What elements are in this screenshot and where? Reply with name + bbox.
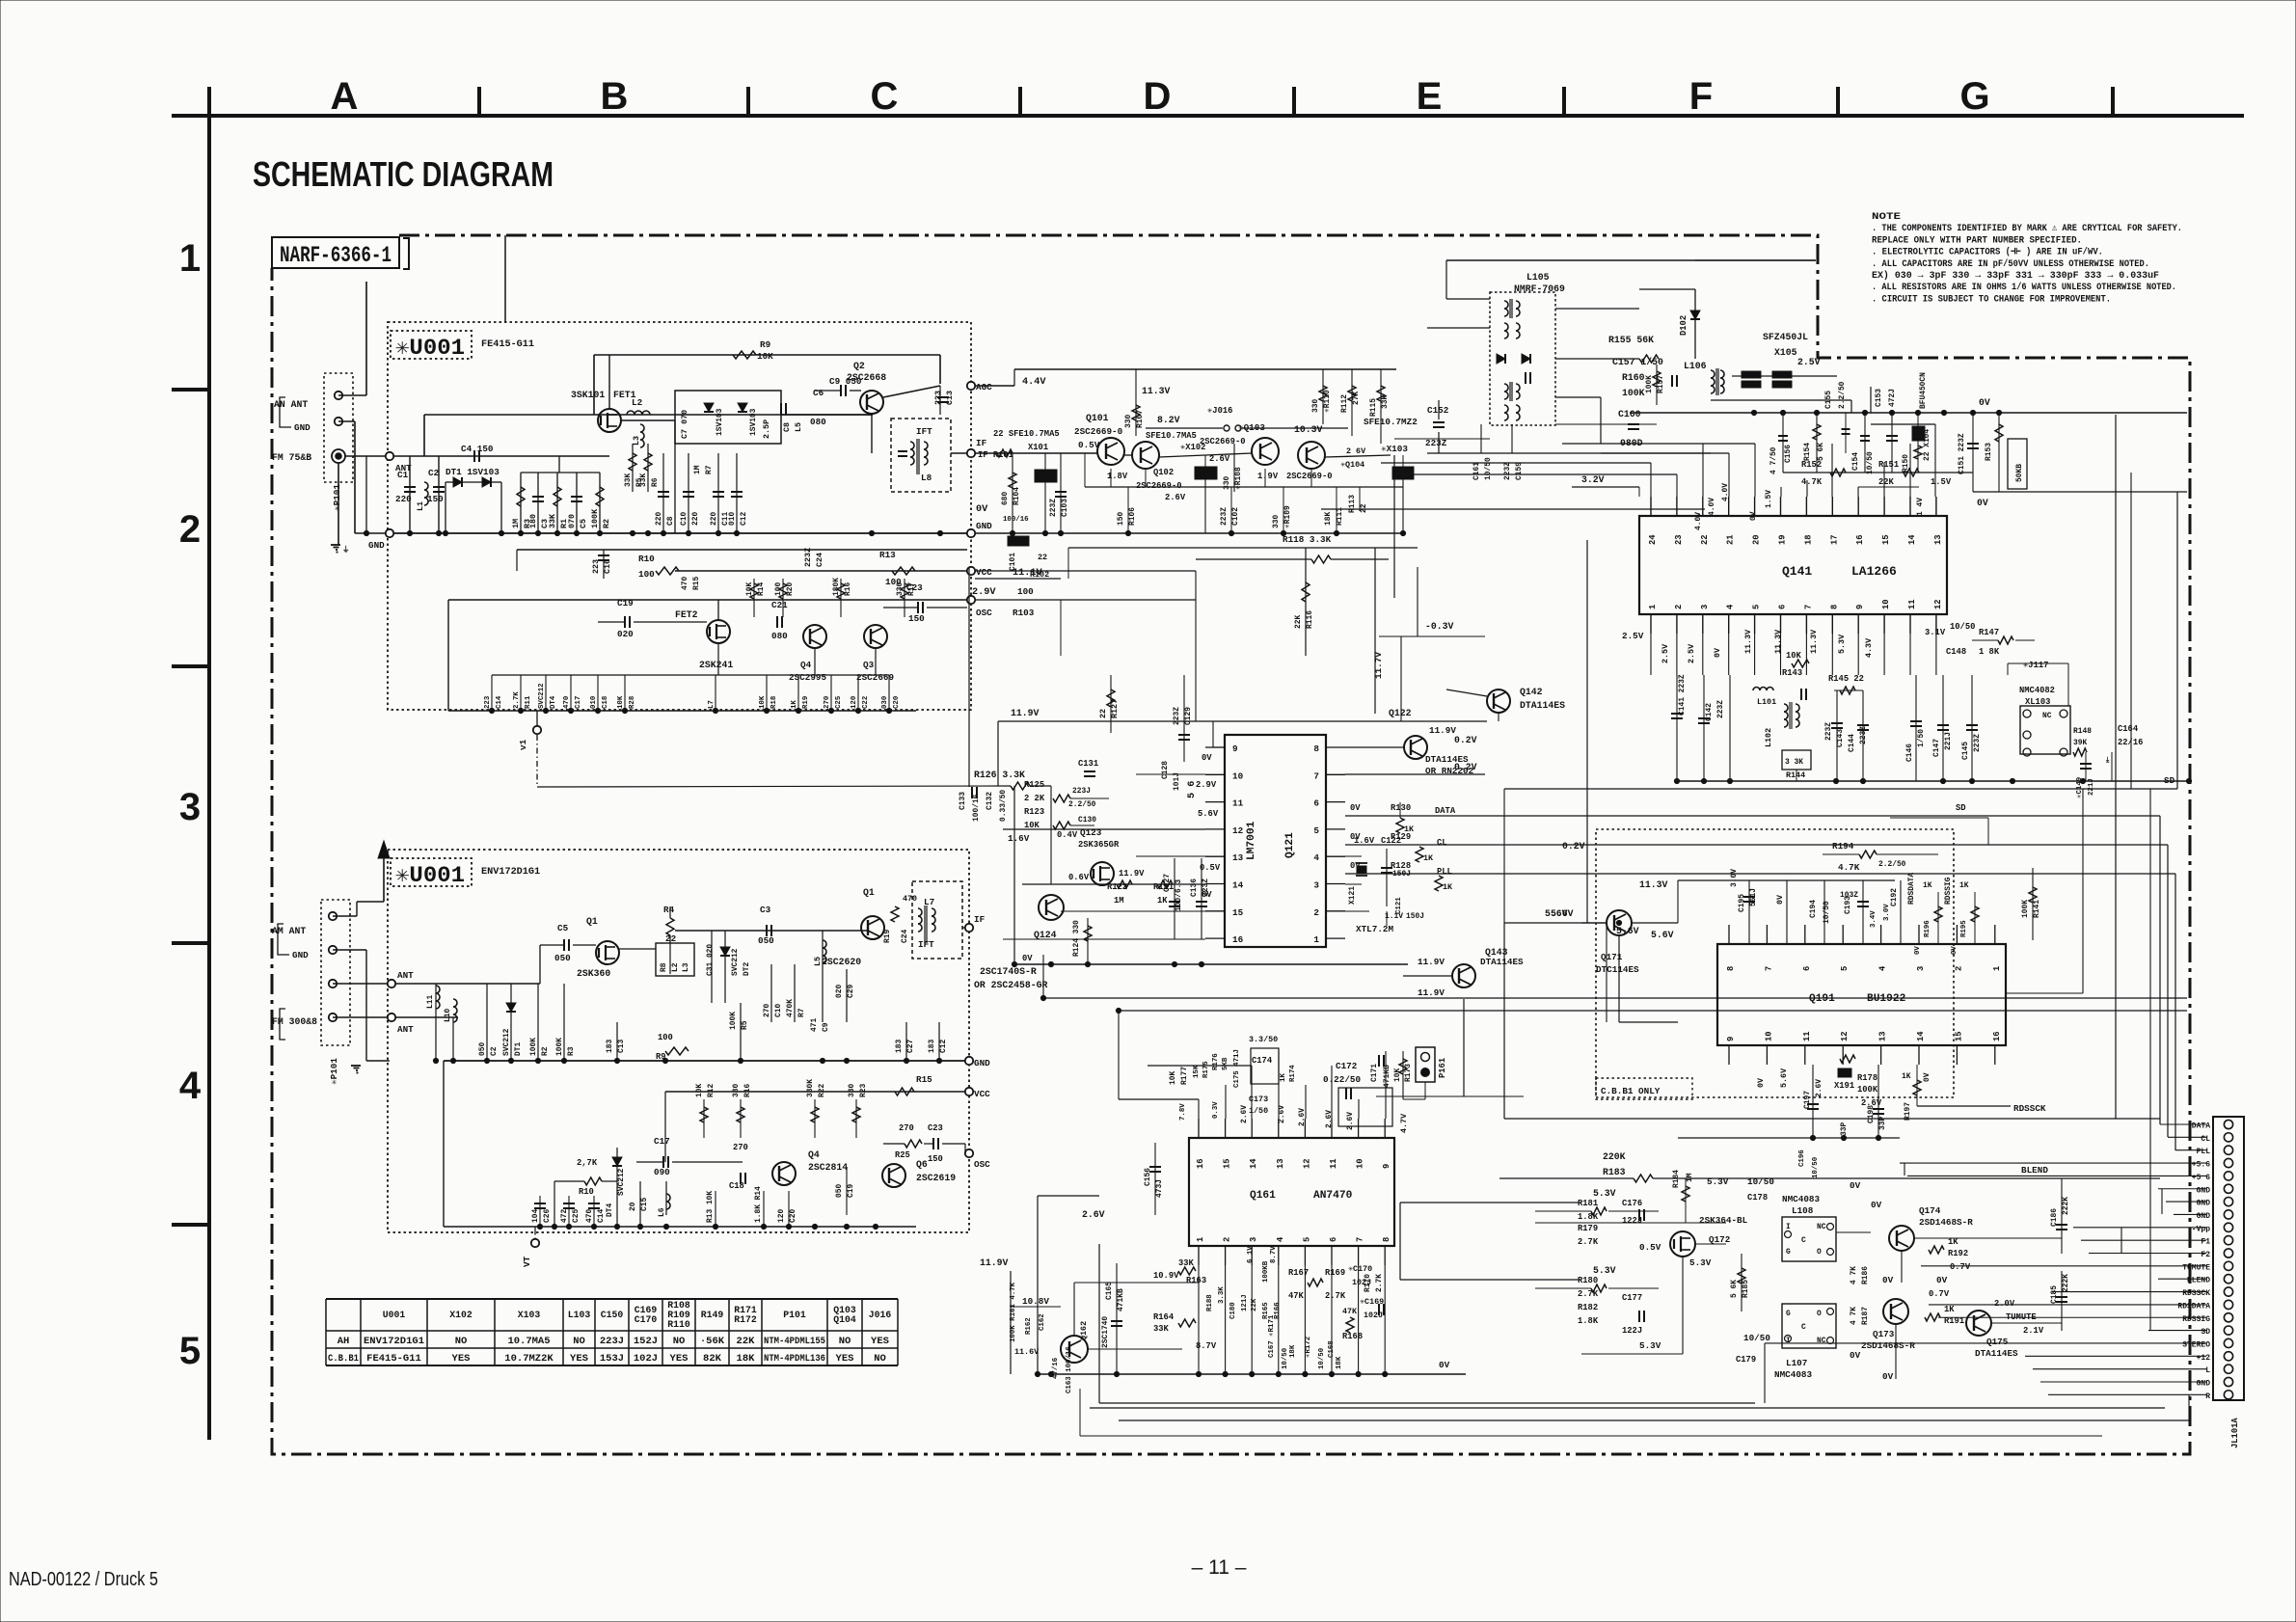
svg-text:X101: X101 <box>1028 443 1048 452</box>
svg-text:020: 020 <box>835 985 844 998</box>
svg-text:270: 270 <box>763 1004 771 1017</box>
svg-text:0.5V: 0.5V <box>1200 863 1221 873</box>
svg-text:AM ANT: AM ANT <box>272 926 306 936</box>
svg-text:Q1: Q1 <box>586 916 598 927</box>
svg-text:R12: R12 <box>707 1084 716 1097</box>
svg-text:C167 ✳R171: C167 ✳R171 <box>1268 1314 1276 1358</box>
svg-text:13: 13 <box>1878 1031 1888 1041</box>
svg-text:39K: 39K <box>2073 739 2087 747</box>
LA1266 top pins 24-13 <box>1650 497 1652 516</box>
svg-text:AN7470: AN7470 <box>1313 1190 1353 1202</box>
svg-text:1SV103: 1SV103 <box>749 408 758 436</box>
svg-text:VT: VT <box>522 1256 532 1267</box>
svg-text:0V: 0V <box>1756 1077 1766 1088</box>
svg-text:120: 120 <box>851 695 858 709</box>
svg-text:0.6V: 0.6V <box>1068 873 1090 882</box>
svg-text:Q104: Q104 <box>833 1314 856 1325</box>
-0.3V area verticals <box>1400 636 1402 721</box>
svg-text:0V: 0V <box>1977 498 1988 508</box>
svg-text:0V: 0V <box>1979 397 1990 408</box>
svg-text:C7 070: C7 070 <box>680 410 689 439</box>
svg-text:0V: 0V <box>1713 647 1722 658</box>
svg-text:080: 080 <box>810 417 826 427</box>
P161 connector <box>1416 1047 1435 1082</box>
svg-text:2: 2 <box>1313 907 1319 918</box>
svg-text:. ELECTROLYTIC CAPACITORS (⊣⊢: . ELECTROLYTIC CAPACITORS (⊣⊢ ) ARE IN u… <box>1872 247 2103 258</box>
svg-text:R169: R169 <box>1325 1268 1345 1278</box>
svg-text:C132: C132 <box>986 792 994 810</box>
svg-text:010: 010 <box>728 512 737 526</box>
svg-text:0.2V: 0.2V <box>1562 841 1585 852</box>
svg-text:223Z: 223Z <box>1173 707 1181 725</box>
svg-text:R19: R19 <box>883 930 892 943</box>
svg-text:Q3: Q3 <box>863 660 875 670</box>
svg-text:C141 223Z: C141 223Z <box>1678 674 1687 716</box>
BU1922 bottom pins 9-16 <box>1728 1045 1730 1065</box>
svg-text:23: 23 <box>1674 534 1684 545</box>
svg-text:14: 14 <box>1249 1158 1258 1169</box>
svg-text:1: 1 <box>1648 605 1658 609</box>
svg-text:27K: 27K <box>1352 392 1361 405</box>
svg-text:6 1V: 6 1V <box>1247 1246 1255 1263</box>
svg-text:R106: R106 <box>1128 507 1137 526</box>
svg-text:R144: R144 <box>1786 770 1805 780</box>
svg-text:STEREO: STEREO <box>2182 1340 2210 1349</box>
svg-text:R103: R103 <box>1013 608 1035 618</box>
svg-text:Q101: Q101 <box>1086 413 1109 423</box>
svg-text:2SC2669-0: 2SC2669-0 <box>1136 481 1182 491</box>
Q162 <box>1061 1336 1088 1363</box>
svg-text:3: 3 <box>179 786 201 828</box>
svg-text:R130: R130 <box>1391 803 1411 813</box>
svg-text:C171: C171 <box>1370 1064 1379 1082</box>
board outline NARF-6366-1 dash-dot <box>272 235 2190 1454</box>
svg-text:Q6: Q6 <box>916 1159 928 1170</box>
L2 coil <box>627 411 635 415</box>
svg-text:2SK365GR: 2SK365GR <box>1078 840 1120 850</box>
wire antenna to box <box>345 455 390 457</box>
R12 R16 R22 R23 bias resistors <box>703 1099 705 1138</box>
ic Q191 BU1922 <box>1717 944 2006 1045</box>
svg-text:✳Q103: ✳Q103 <box>1238 422 1265 433</box>
svg-text:010: 010 <box>590 695 598 709</box>
svg-text:FM 75&B: FM 75&B <box>272 452 311 463</box>
svg-text:102J: 102J <box>1364 1311 1383 1320</box>
svg-text:F1: F1 <box>2201 1238 2210 1247</box>
svg-text:R9: R9 <box>760 339 771 350</box>
svg-text:L1: L1 <box>416 501 425 511</box>
svg-text:5KB: 5KB <box>1222 1057 1229 1070</box>
wires out of RDS box <box>1504 1021 1619 1023</box>
svg-text:11: 11 <box>1802 1031 1812 1041</box>
svg-text:14: 14 <box>1916 1031 1926 1041</box>
svg-text:R4: R4 <box>663 905 675 915</box>
svg-text:P101: P101 <box>783 1310 806 1320</box>
IFT AM dashed box <box>912 881 962 959</box>
svg-text:0V: 0V <box>1951 946 1958 955</box>
connector JL101A <box>2213 1117 2244 1400</box>
svg-text:10K: 10K <box>695 1084 704 1097</box>
svg-text:R163: R163 <box>1186 1276 1206 1285</box>
svg-text:BU1922: BU1922 <box>1867 993 1906 1005</box>
svg-text:24: 24 <box>1648 534 1658 545</box>
AM gnd bus <box>444 1060 965 1062</box>
svg-text:C.B.B1: C.B.B1 <box>328 1353 359 1365</box>
svg-text:221J: 221J <box>2088 778 2095 796</box>
svg-text:150: 150 <box>928 1154 943 1164</box>
svg-text:3SK101: 3SK101 <box>571 390 605 400</box>
svg-text:CL: CL <box>2201 1135 2210 1144</box>
svg-text:C130: C130 <box>1078 816 1096 825</box>
svg-text:0V: 0V <box>1775 894 1785 905</box>
svg-text:GND: GND <box>368 540 385 551</box>
svg-text:102J: 102J <box>634 1353 658 1365</box>
svg-text:1.1V: 1.1V <box>1385 912 1403 921</box>
svg-text:C20: C20 <box>789 1209 797 1223</box>
svg-text:1.5V: 1.5V <box>1931 477 1952 487</box>
svg-text:9: 9 <box>1382 1164 1391 1169</box>
svg-text:0V: 0V <box>1914 946 1922 955</box>
svg-text:L3: L3 <box>682 962 690 972</box>
svg-text:270: 270 <box>733 1143 748 1152</box>
svg-text:11.9V: 11.9V <box>1119 869 1145 879</box>
inner emitter rail <box>1085 486 1403 488</box>
svg-text:R116: R116 <box>1306 610 1314 629</box>
module U001 FM FE415-G11 dotted box <box>388 322 971 710</box>
svg-text:12: 12 <box>1302 1158 1311 1169</box>
C141 C142 caps <box>1676 675 1678 781</box>
svg-text:R194: R194 <box>1832 841 1854 852</box>
svg-text:NTM-4PDML136: NTM-4PDML136 <box>764 1353 825 1365</box>
C6 cap <box>780 403 782 415</box>
svg-text:13: 13 <box>1276 1158 1285 1169</box>
svg-text:R141: R141 <box>2033 900 2041 918</box>
junction dots AM buses <box>433 1058 438 1063</box>
svg-text:150: 150 <box>1117 512 1125 526</box>
svg-text:✳X103: ✳X103 <box>1381 444 1408 454</box>
svg-text:090: 090 <box>654 1167 670 1177</box>
svg-text:C31 020: C31 020 <box>706 944 715 976</box>
svg-text:0.7V: 0.7V <box>1950 1262 1971 1272</box>
svg-text:G: G <box>1786 1248 1791 1257</box>
svg-text:4: 4 <box>1726 604 1736 609</box>
svg-text:C197: C197 <box>1803 1091 1812 1109</box>
svg-text:2.6V: 2.6V <box>1325 1110 1334 1128</box>
svg-text:471KB: 471KB <box>1117 1288 1125 1311</box>
top cap rail <box>1678 879 1895 881</box>
svg-text:2.6V: 2.6V <box>1082 1209 1105 1220</box>
270 C10 470K R7 <box>770 964 772 1022</box>
svg-text:2.9V: 2.9V <box>972 587 996 598</box>
svg-text:L101: L101 <box>1757 697 1776 707</box>
svg-text:4.3V: 4.3V <box>1864 637 1874 658</box>
svg-text:C153: C153 <box>1875 389 1883 407</box>
AGC wire right of FM box <box>975 385 1014 387</box>
svg-text:2 6V: 2 6V <box>1346 446 1366 456</box>
svg-text:L2: L2 <box>671 962 680 972</box>
svg-text:R157: R157 <box>1657 375 1665 393</box>
svg-text:15: 15 <box>1954 1031 1963 1041</box>
svg-text:VCC: VCC <box>976 567 992 578</box>
Q1 2SC2620 <box>861 916 884 939</box>
svg-text:L7: L7 <box>708 700 716 709</box>
svg-text:DTA114ES: DTA114ES <box>1425 754 1469 765</box>
IFT transformer dashed box <box>891 419 951 492</box>
svg-text:1.8K: 1.8K <box>1578 1212 1599 1222</box>
svg-text:NO: NO <box>839 1336 851 1347</box>
svg-text:L11: L11 <box>426 995 435 1009</box>
Q1 2SK360 FET <box>596 941 619 964</box>
svg-text:DT2: DT2 <box>743 962 751 976</box>
svg-text:0V: 0V <box>1882 1371 1894 1382</box>
svg-text:YES: YES <box>452 1353 471 1365</box>
svg-text:2.7K: 2.7K <box>1578 1289 1599 1299</box>
svg-text:O: O <box>1817 1310 1822 1318</box>
svg-text:2SC2995: 2SC2995 <box>789 672 826 683</box>
svg-text:Q161: Q161 <box>1250 1190 1276 1202</box>
svg-text:223Z: 223Z <box>1202 879 1210 897</box>
svg-text:4.7V: 4.7V <box>1399 1113 1409 1133</box>
svg-text:GND: GND <box>2197 1186 2211 1195</box>
junction dots LM bus <box>1012 961 1016 966</box>
svg-text:10.9V: 10.9V <box>1153 1271 1179 1281</box>
svg-text:10: 10 <box>1356 1158 1365 1169</box>
svg-text:33K: 33K <box>639 473 648 487</box>
svg-text:R162: R162 <box>1025 1317 1033 1335</box>
svg-text:R192: R192 <box>1948 1249 1968 1258</box>
svg-text:070: 070 <box>567 514 577 528</box>
svg-text:C101: C101 <box>1009 553 1017 571</box>
svg-text:. CIRCUIT IS SUBJECT TO CHANGE: . CIRCUIT IS SUBJECT TO CHANGE FOR IMPRO… <box>1872 293 2111 305</box>
svg-text:R10: R10 <box>579 1187 594 1197</box>
long vertical feeds to LA1266 rows <box>1393 455 1395 598</box>
svg-text:150: 150 <box>427 494 444 504</box>
svg-text:L106: L106 <box>1684 361 1707 371</box>
svg-text:R177: R177 <box>1180 1067 1189 1085</box>
svg-text:100K: 100K <box>729 1012 738 1030</box>
svg-text:C21: C21 <box>771 600 788 610</box>
svg-text:100/16: 100/16 <box>1003 516 1029 524</box>
svg-text:150J: 150J <box>1406 912 1424 921</box>
svg-text:Q191: Q191 <box>1809 993 1835 1005</box>
svg-text:IF: IF <box>976 438 987 448</box>
svg-text:Q142: Q142 <box>1520 687 1543 697</box>
svg-text:10K: 10K <box>617 695 625 709</box>
svg-text:C155: C155 <box>1824 391 1833 409</box>
svg-text:33K: 33K <box>1153 1324 1170 1334</box>
svg-text:050: 050 <box>478 1042 487 1056</box>
svg-text:R8: R8 <box>660 962 668 972</box>
svg-text:BLEND: BLEND <box>2187 1277 2210 1285</box>
bus from v1 at y=815 <box>537 786 1011 787</box>
svg-text:2SC2620: 2SC2620 <box>822 957 861 967</box>
svg-text:✳P101: ✳P101 <box>329 1058 339 1085</box>
svg-text:Q1: Q1 <box>863 887 875 898</box>
svg-text:DTA114ES: DTA114ES <box>1520 700 1565 711</box>
svg-text:122J: 122J <box>1622 1326 1642 1336</box>
svg-text:R154: R154 <box>1803 443 1812 461</box>
svg-text:22K: 22K <box>1294 615 1303 629</box>
svg-text:100K: 100K <box>1857 1085 1878 1095</box>
svg-text:C170: C170 <box>635 1314 658 1325</box>
svg-text:C175 471J: C175 471J <box>1233 1049 1241 1088</box>
svg-text:4 7K: 4 7K <box>1850 1266 1858 1284</box>
svg-text:SD: SD <box>2201 1328 2210 1337</box>
long loop wires around decoder <box>1037 1196 1039 1374</box>
svg-text:R128: R128 <box>1391 861 1411 871</box>
svg-text:L102: L102 <box>1764 728 1773 747</box>
svg-text:⤓: ⤓ <box>2105 756 2110 765</box>
svg-text:C5: C5 <box>579 519 588 528</box>
board name box NARF-6366-1 <box>272 237 399 268</box>
svg-text:0V: 0V <box>1923 1072 1931 1082</box>
svg-text:1K: 1K <box>1443 882 1453 892</box>
svg-text:YES: YES <box>670 1353 689 1365</box>
svg-text:0.3V: 0.3V <box>1212 1101 1220 1119</box>
svg-text:5: 5 <box>1302 1237 1311 1242</box>
svg-text:R: R <box>2205 1392 2210 1401</box>
svg-text:5.6V: 5.6V <box>1198 809 1219 819</box>
R118 3.3K <box>1068 547 1418 549</box>
svg-text:1K: 1K <box>1959 881 1969 890</box>
svg-text:C2: C2 <box>490 1046 499 1056</box>
svg-text:Q173: Q173 <box>1873 1329 1895 1339</box>
svg-text:5: 5 <box>179 1330 201 1372</box>
svg-text:R152: R152 <box>1801 460 1822 470</box>
ic Q121 LM7001 <box>1225 735 1326 947</box>
svg-text:2,7K: 2,7K <box>577 1158 598 1168</box>
svg-text:C147: C147 <box>1932 739 1941 757</box>
svg-text:RDSDATA: RDSDATA <box>1907 873 1916 905</box>
svg-text:G: G <box>1786 1310 1791 1318</box>
svg-text:050: 050 <box>835 1184 844 1198</box>
variant table <box>326 1298 898 1300</box>
svg-text:5.3V: 5.3V <box>1707 1176 1729 1187</box>
svg-text:470: 470 <box>681 577 689 590</box>
svg-text:GND: GND <box>2197 1380 2211 1389</box>
top feedback rail R9 <box>594 354 940 356</box>
svg-text:2SC2668: 2SC2668 <box>847 372 886 383</box>
svg-text:1K: 1K <box>1902 1072 1911 1081</box>
IF terminal AM <box>965 924 973 932</box>
svg-text:R155 56K: R155 56K <box>1608 335 1654 345</box>
svg-text:100K: 100K <box>590 508 600 528</box>
AN7470 bottom pins 1-8 <box>1198 1246 1200 1265</box>
svg-text:NTM-4PDML155: NTM-4PDML155 <box>764 1336 825 1347</box>
below LA1266 drops <box>1650 634 1652 675</box>
svg-text:2.5P: 2.5P <box>762 419 771 439</box>
svg-text:6: 6 <box>1329 1237 1338 1242</box>
module U001 AM ENV172D1G1 dotted box <box>388 850 969 1232</box>
svg-text:180K: 180K <box>832 578 841 596</box>
svg-text:3.2V: 3.2V <box>1581 474 1605 485</box>
svg-text:3: 3 <box>1249 1237 1258 1242</box>
svg-text:1: 1 <box>179 237 201 280</box>
svg-text:0V: 0V <box>1882 1275 1894 1285</box>
svg-text:AN ANT: AN ANT <box>274 399 308 410</box>
svg-text:22K: 22K <box>737 1336 756 1347</box>
svg-text:C179: C179 <box>1736 1355 1756 1365</box>
svg-text:5: 5 <box>1840 966 1850 971</box>
FET1 3SK101 <box>598 409 621 432</box>
svg-text:-0.3V: -0.3V <box>1425 621 1454 632</box>
svg-text:NMC4083: NMC4083 <box>1774 1369 1812 1380</box>
svg-text:7: 7 <box>1313 770 1319 781</box>
svg-text:SVC212: SVC212 <box>731 948 740 976</box>
svg-text:✳U001: ✳U001 <box>395 863 465 888</box>
transformer lower <box>1504 384 1508 392</box>
wires around L105 <box>1446 259 1816 261</box>
svg-text:15: 15 <box>1223 1158 1232 1169</box>
svg-text:AH: AH <box>338 1336 350 1347</box>
svg-text:YES: YES <box>836 1353 854 1365</box>
svg-text:220: 220 <box>655 512 663 526</box>
svg-text:NC: NC <box>1817 1223 1826 1231</box>
svg-text:C8: C8 <box>666 516 675 526</box>
svg-text:2SD1468S-R: 2SD1468S-R <box>1919 1217 1973 1228</box>
svg-text:C19: C19 <box>617 598 634 608</box>
svg-text:47K: 47K <box>1288 1291 1305 1301</box>
svg-text:0.5V: 0.5V <box>1639 1242 1661 1253</box>
svg-text:C176: C176 <box>1622 1199 1642 1208</box>
svg-text:3: 3 <box>1313 880 1319 891</box>
bottom bus of oscillator <box>448 710 916 712</box>
svg-text:ANT: ANT <box>397 970 414 981</box>
svg-text:R167: R167 <box>1288 1268 1309 1278</box>
svg-text:16: 16 <box>1232 934 1244 945</box>
svg-text:5: 5 <box>1752 605 1762 609</box>
svg-text:11.3V: 11.3V <box>1773 629 1783 654</box>
svg-text:2: 2 <box>1223 1237 1232 1242</box>
junction dots FM buses <box>407 530 412 535</box>
svg-text:223Z: 223Z <box>1220 507 1229 526</box>
svg-text:✳R109: ✳R109 <box>1283 505 1292 528</box>
svg-text:R113: R113 <box>1348 495 1357 513</box>
svg-text:2SC2669-0: 2SC2669-0 <box>1074 426 1123 437</box>
svg-text:C3: C3 <box>760 905 771 915</box>
svg-text:3.0V: 3.0V <box>1730 869 1739 887</box>
svg-text:10.3V: 10.3V <box>1294 424 1323 435</box>
svg-text:2SK360: 2SK360 <box>577 968 610 979</box>
Q123 2SK365GR <box>1091 862 1114 885</box>
svg-text:223Z: 223Z <box>1716 700 1725 718</box>
svg-text:470: 470 <box>585 1209 594 1223</box>
svg-text:7.8V: 7.8V <box>1179 1103 1187 1121</box>
svg-text:+5.6: +5.6 <box>2192 1161 2210 1170</box>
svg-text:19: 19 <box>1778 534 1788 545</box>
svg-text:RDSSCK: RDSSCK <box>2182 1289 2210 1298</box>
svg-text:SFZ450JL: SFZ450JL <box>1763 332 1808 342</box>
svg-text:22 X104: 22 X104 <box>1923 429 1931 461</box>
svg-text:EX) 030 → 3pF 330 → 33pF 331: EX) 030 → 3pF 330 → 33pF 331 → 330pF 333… <box>1872 270 2159 282</box>
junction dots IF gnd <box>1010 530 1014 535</box>
svg-text:R123: R123 <box>1024 807 1044 817</box>
R5 R6 resistors <box>632 444 634 492</box>
Q173 <box>1883 1299 1908 1324</box>
svg-text:13: 13 <box>1232 852 1244 863</box>
svg-text:R115: R115 <box>1369 398 1378 417</box>
svg-text:220: 220 <box>710 512 718 526</box>
svg-text:NOTE: NOTE <box>1872 211 1901 223</box>
svg-text:2.6V: 2.6V <box>1815 1079 1823 1097</box>
page frame top rule <box>172 114 2244 118</box>
AM OSC out <box>965 1149 973 1157</box>
junction dots BU bus <box>1810 1135 1815 1140</box>
svg-text:223: 223 <box>484 695 492 709</box>
ANT wires into AM box <box>333 983 390 985</box>
svg-text:v1: v1 <box>518 739 528 750</box>
svg-text:030: 030 <box>881 695 889 709</box>
